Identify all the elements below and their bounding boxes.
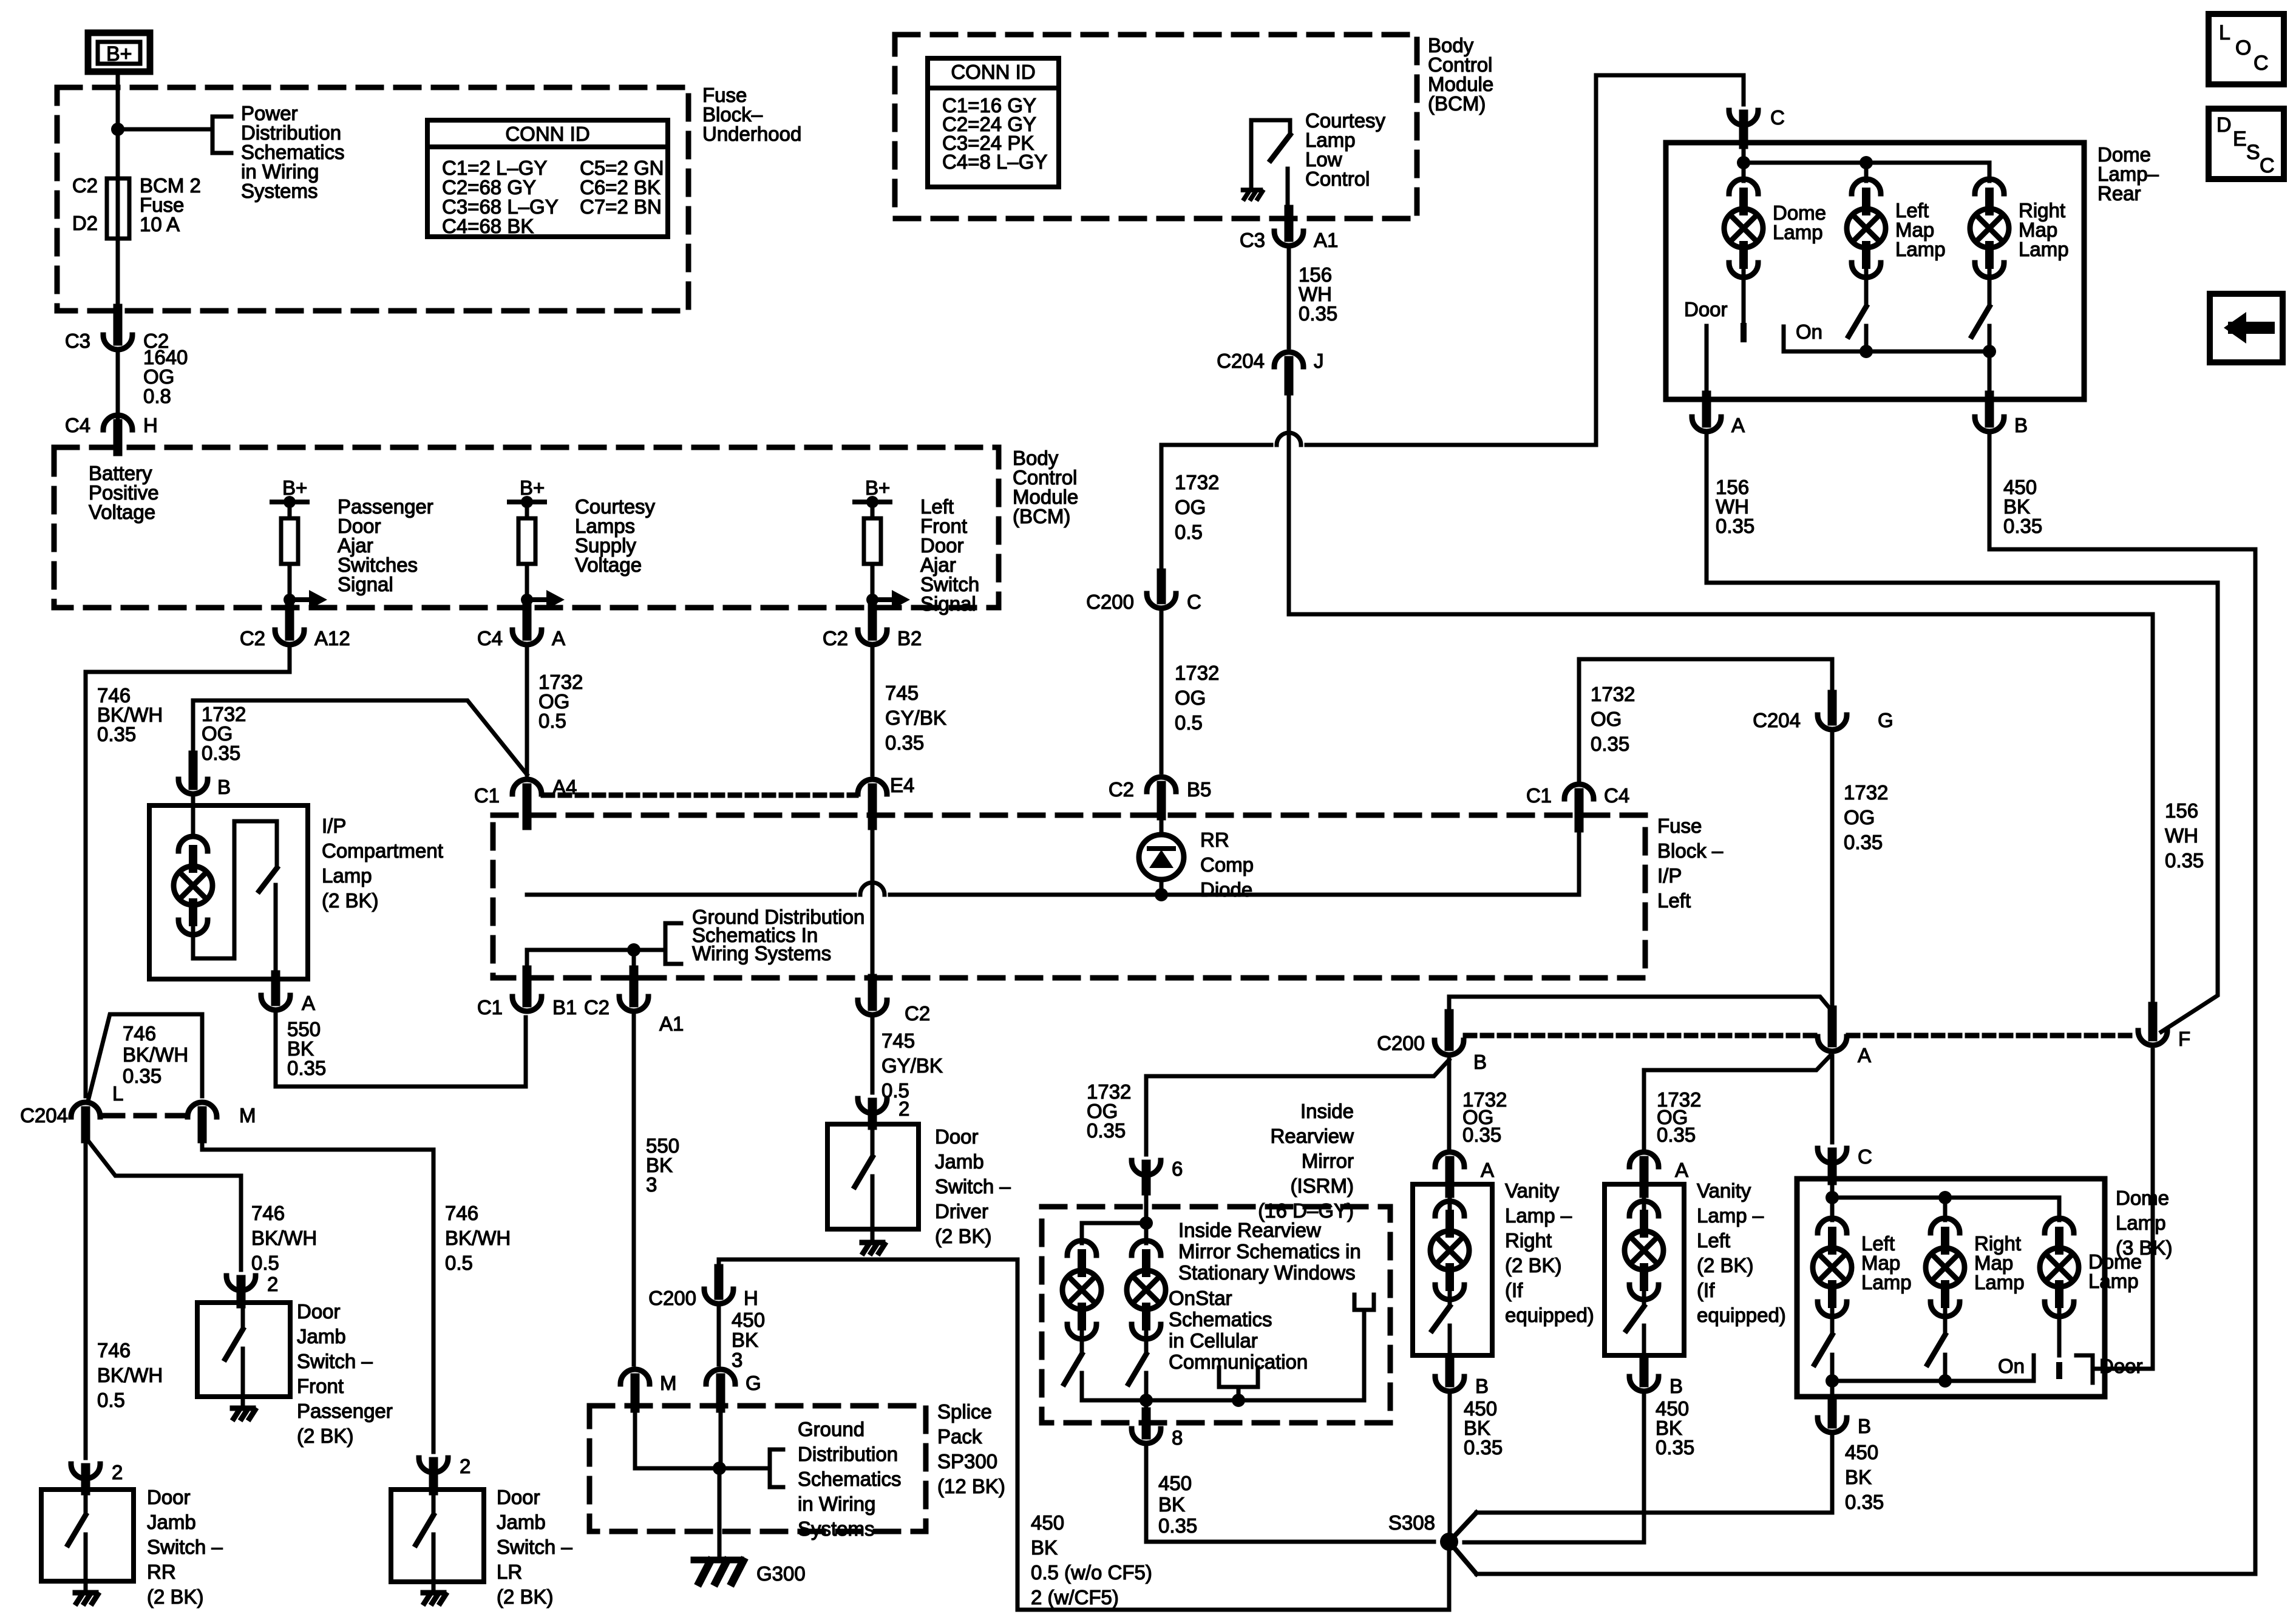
- svg-text:M: M: [660, 1372, 677, 1394]
- svg-text:(2 BK): (2 BK): [297, 1425, 354, 1447]
- wire 6 into ISRM box: [1144, 1191, 1149, 1223]
- wire I/P bulb to switch: [193, 821, 277, 958]
- hop at J column: [1277, 442, 1301, 449]
- svg-text:A: A: [552, 627, 565, 649]
- svg-text:Schematics: Schematics: [798, 1468, 902, 1490]
- svg-text:BK/WH: BK/WH: [445, 1227, 511, 1249]
- wire L to front passenger jamb: [86, 1137, 241, 1270]
- wire on bus: [1866, 350, 1989, 354]
- wire 3bk to B: [1830, 1381, 1835, 1407]
- node fuse feed junction: [111, 123, 124, 136]
- svg-text:C204: C204: [20, 1104, 68, 1127]
- wire vanity right to S308: [1448, 1395, 1452, 1533]
- dotted connector line A4-E4: [543, 793, 856, 798]
- svg-text:Lamp: Lamp: [1861, 1271, 1912, 1293]
- wire splice to bracket: [719, 1466, 770, 1471]
- svg-text:0.35: 0.35: [202, 742, 240, 764]
- svg-text:Signal: Signal: [338, 573, 393, 595]
- connector C4/H (cap): [103, 415, 132, 430]
- svg-text:Left: Left: [1657, 889, 1691, 912]
- svg-text:Door: Door: [1684, 298, 1728, 320]
- wire bus drop right map 3bk: [1943, 1198, 1948, 1220]
- wire vanity left feed: [1644, 1056, 1830, 1148]
- connector G splice (cap): [706, 1369, 735, 1384]
- ground G300: [694, 1557, 741, 1564]
- svg-text:Jamb: Jamb: [297, 1325, 346, 1347]
- svg-text:B: B: [1473, 1051, 1487, 1073]
- svg-text:Lamp: Lamp: [1773, 221, 1823, 243]
- node dome rear bus 2: [1860, 156, 1873, 169]
- svg-text:0.35: 0.35: [2165, 849, 2204, 872]
- svg-text:C7=2 BN: C7=2 BN: [580, 195, 662, 218]
- svg-text:C4=68 BK: C4=68 BK: [442, 215, 534, 237]
- wire ground distribution link: [527, 950, 665, 974]
- svg-text:1732: 1732: [1844, 781, 1888, 804]
- diagonal S308 bottom: [1447, 1608, 1452, 1612]
- wire left map switch: [1864, 265, 1869, 307]
- node on bus 2: [1983, 345, 1996, 358]
- svg-text:C2: C2: [584, 996, 610, 1019]
- svg-text:745: 745: [885, 682, 919, 704]
- svg-text:B: B: [1858, 1415, 1871, 1437]
- svg-text:S: S: [2246, 141, 2260, 164]
- switch courtesy lamp low control: [1251, 120, 1290, 189]
- wire 1640 OG 0.8: [116, 353, 120, 420]
- connector C dome rear (cup): [1729, 110, 1758, 125]
- connector C1/C4 (cap): [1564, 784, 1594, 799]
- svg-text:OnStar: OnStar: [1169, 1287, 1232, 1309]
- svg-text:D2: D2: [72, 212, 98, 234]
- wire 156 bus to F: [1289, 614, 2153, 1011]
- connector C2/B5 (cap): [1147, 777, 1176, 792]
- svg-text:Right: Right: [1505, 1229, 1552, 1252]
- svg-text:BK: BK: [1158, 1493, 1185, 1516]
- svg-text:450: 450: [732, 1309, 765, 1331]
- svg-text:(2 BK): (2 BK): [935, 1225, 992, 1247]
- wire right map switch: [1988, 265, 1992, 307]
- switch front passenger jamb: [241, 1303, 245, 1329]
- connector B dome 3bk (cup): [1818, 1418, 1847, 1432]
- wire C into dome rear box: [1742, 144, 1746, 181]
- connector C204/J (cap): [1274, 352, 1303, 367]
- svg-text:Mirror: Mirror: [1302, 1150, 1354, 1172]
- bulb left map lamp (rear): [1852, 179, 1881, 194]
- svg-text:J: J: [1314, 350, 1324, 372]
- connector 2 driver jamb (cup): [858, 1099, 887, 1113]
- wire G into splice: [719, 1405, 723, 1468]
- wire 746 BK/WH 0.35: [86, 648, 290, 1096]
- svg-text:Lamp: Lamp: [2116, 1212, 2166, 1234]
- connector A (cup) I/P lamp out: [261, 995, 290, 1010]
- svg-text:2: 2: [267, 1273, 278, 1295]
- svg-text:Communication: Communication: [1169, 1351, 1308, 1373]
- node ISRM bus 8: [1140, 1394, 1153, 1407]
- svg-text:OG: OG: [1591, 708, 1622, 730]
- DESC box: [2209, 109, 2284, 179]
- svg-text:Passenger: Passenger: [297, 1400, 393, 1422]
- svg-text:(2 BK): (2 BK): [322, 889, 379, 912]
- svg-text:Fuse: Fuse: [1657, 815, 1702, 837]
- svg-text:156: 156: [2165, 799, 2198, 822]
- connector C200/A vanity (cup): [1818, 1037, 1847, 1051]
- switch ISRM left: [1080, 1327, 1084, 1354]
- bracket On (3bk): [2032, 1355, 2036, 1381]
- switch vanity left: [1642, 1287, 1646, 1306]
- bulb I/P compartment lamp: [178, 836, 208, 851]
- svg-text:2: 2: [460, 1455, 470, 1477]
- svg-text:in Wiring: in Wiring: [798, 1493, 875, 1515]
- wire ISRM branch left: [1082, 1223, 1146, 1243]
- svg-text:B+: B+: [282, 476, 307, 499]
- bulb dome 3bk: [2045, 1218, 2074, 1233]
- svg-text:0.35: 0.35: [1591, 733, 1629, 755]
- svg-text:B+: B+: [865, 476, 890, 499]
- dashed box Body Control Module: [54, 447, 999, 608]
- svg-text:0.35: 0.35: [1087, 1119, 1126, 1142]
- door jamb switch RR box: [41, 1490, 134, 1581]
- hop at E4 column: [860, 892, 885, 898]
- connector B dome rear (cup): [1975, 417, 2004, 432]
- svg-text:O: O: [2235, 36, 2251, 59]
- svg-text:C: C: [1858, 1145, 1872, 1168]
- svg-text:A: A: [1481, 1159, 1494, 1181]
- svg-text:OG: OG: [1175, 496, 1206, 518]
- svg-text:B: B: [1475, 1375, 1489, 1397]
- svg-text:Switch –: Switch –: [497, 1536, 572, 1558]
- svg-text:Vanity: Vanity: [1505, 1179, 1560, 1202]
- wire bus drop right map: [1988, 163, 1992, 181]
- wire C200 H feed from S308: [719, 1259, 1447, 1610]
- svg-text:0.35: 0.35: [2003, 515, 2042, 537]
- svg-text:Switch –: Switch –: [297, 1350, 373, 1372]
- svg-text:Jamb: Jamb: [935, 1150, 984, 1173]
- svg-text:0.5: 0.5: [1175, 521, 1203, 543]
- svg-text:746: 746: [97, 1339, 131, 1361]
- diode RR Comp: [1139, 835, 1184, 880]
- wire 550 BK 0.35: [276, 1014, 526, 1086]
- connector C200/C (cup): [1147, 594, 1176, 608]
- svg-text:8: 8: [1172, 1426, 1183, 1449]
- svg-text:Switch –: Switch –: [935, 1175, 1011, 1198]
- svg-text:equipped): equipped): [1505, 1304, 1594, 1326]
- connector A dome rear (cup): [1692, 417, 1721, 432]
- wire I/P switch lower: [274, 885, 278, 982]
- node 3bk bottom bus 2: [1938, 1374, 1952, 1388]
- svg-text:Rearview: Rearview: [1270, 1125, 1354, 1147]
- svg-text:A: A: [1675, 1159, 1688, 1181]
- svg-text:BK: BK: [732, 1329, 758, 1351]
- svg-text:450: 450: [1031, 1511, 1064, 1534]
- connector F (cup): [2138, 1031, 2167, 1045]
- svg-text:C1: C1: [1526, 784, 1552, 807]
- svg-text:0.35: 0.35: [1464, 1436, 1503, 1459]
- svg-text:Pack: Pack: [937, 1425, 982, 1448]
- switch blade I/P lamp: [259, 868, 277, 891]
- wire vanity right pin: [1448, 1187, 1452, 1216]
- svg-text:M: M: [239, 1104, 256, 1127]
- connector 2 RR (cup): [71, 1464, 100, 1479]
- wire E4 to C2: [871, 821, 875, 987]
- switch right map 3bk: [1943, 1304, 1948, 1335]
- svg-text:Splice: Splice: [937, 1400, 992, 1423]
- svg-text:0.35: 0.35: [1299, 302, 1337, 325]
- svg-text:0.5: 0.5: [251, 1252, 279, 1274]
- svg-text:0.35: 0.35: [97, 723, 136, 745]
- svg-text:0.35: 0.35: [885, 731, 924, 754]
- svg-text:A1: A1: [1314, 229, 1338, 251]
- svg-text:G: G: [746, 1372, 761, 1394]
- ground LR: [423, 1590, 444, 1596]
- wire C to B5: [1160, 612, 1164, 772]
- svg-text:OG: OG: [1844, 806, 1875, 829]
- svg-text:Lamp –: Lamp –: [1697, 1204, 1764, 1227]
- connector C4/A (cup): [512, 630, 542, 645]
- wire bus up to C1/C4: [1577, 821, 1581, 895]
- wire into I/P lamp box: [191, 798, 195, 833]
- svg-text:Control: Control: [1305, 168, 1370, 190]
- svg-text:L: L: [2219, 21, 2230, 44]
- connector C dome 3bk (cup): [1818, 1148, 1847, 1163]
- dashed box BCM top: [895, 35, 1417, 219]
- svg-text:A: A: [1731, 414, 1745, 436]
- svg-text:2: 2: [898, 1097, 909, 1120]
- wire 156 WH 0.35 to C204 J: [1287, 249, 1291, 347]
- svg-text:10 A: 10 A: [140, 213, 180, 236]
- bulb vanity left: [1629, 1201, 1659, 1216]
- wire BCM to dome rear C: [1596, 75, 1744, 445]
- svg-text:0.35: 0.35: [1657, 1124, 1696, 1146]
- svg-text:0.35: 0.35: [1844, 831, 1883, 853]
- wire 1732 OG bus: [527, 893, 1579, 897]
- door jamb switch LR box: [391, 1490, 484, 1582]
- wire 450 BK 3: [717, 1307, 721, 1364]
- svg-text:(BCM): (BCM): [1428, 92, 1486, 115]
- connector C3/A1 (cup): [1274, 231, 1303, 246]
- connector M splice (cap): [620, 1369, 650, 1384]
- dashed line between L and M: [104, 1113, 183, 1119]
- bridge wire L to M: [89, 1014, 202, 1099]
- switch ISRM right: [1144, 1327, 1149, 1354]
- svg-text:Systems: Systems: [798, 1517, 875, 1540]
- svg-text:C2: C2: [905, 1002, 930, 1025]
- svg-text:Door: Door: [297, 1300, 341, 1323]
- connector C1/B1 (cup): [512, 997, 542, 1011]
- ground RR stem: [84, 1581, 88, 1593]
- svg-text:WH: WH: [2165, 824, 2198, 847]
- node splice junction: [713, 1462, 726, 1475]
- svg-text:Ground: Ground: [798, 1418, 864, 1440]
- svg-text:746: 746: [123, 1022, 156, 1045]
- node diode to 1474 line: [1155, 888, 1168, 901]
- connector C204/L (cap): [71, 1102, 100, 1117]
- node 3bk bottom bus 1: [1826, 1374, 1839, 1388]
- svg-text:equipped): equipped): [1697, 1304, 1786, 1326]
- svg-text:Door: Door: [935, 1125, 979, 1148]
- svg-text:C200: C200: [648, 1287, 696, 1309]
- bracket Door (3bk): [2076, 1355, 2093, 1383]
- svg-text:Jamb: Jamb: [147, 1511, 196, 1533]
- svg-text:C200: C200: [1377, 1032, 1425, 1054]
- svg-text:Rear: Rear: [2097, 182, 2141, 205]
- wire S308 bottom drop: [1447, 1542, 1452, 1610]
- wire M to LR jamb: [202, 1137, 433, 1452]
- svg-text:BK/WH: BK/WH: [97, 1364, 163, 1386]
- wire L to RR jamb: [84, 1137, 88, 1458]
- svg-text:0.35: 0.35: [123, 1065, 161, 1087]
- wire vanity left to S308: [1464, 1395, 1644, 1542]
- bracket ground dist (splice): [770, 1449, 783, 1487]
- svg-text:Diode: Diode: [1200, 878, 1252, 901]
- svg-text:2 (w/CF5): 2 (w/CF5): [1031, 1586, 1119, 1609]
- svg-text:OG: OG: [1175, 686, 1206, 709]
- svg-text:B+: B+: [520, 476, 545, 499]
- svg-text:Left: Left: [1697, 1229, 1730, 1252]
- svg-text:0.5: 0.5: [97, 1389, 125, 1411]
- door jamb switch driver box: [827, 1124, 919, 1229]
- switch vanity right: [1448, 1287, 1452, 1306]
- bracket On (dome rear): [1784, 327, 1866, 351]
- svg-text:0.35: 0.35: [1845, 1491, 1884, 1513]
- LOC box: [2209, 14, 2284, 84]
- svg-text:C4: C4: [65, 414, 90, 436]
- svg-text:450: 450: [1845, 1441, 1878, 1463]
- svg-text:C4: C4: [1604, 784, 1629, 807]
- svg-text:Stationary Windows: Stationary Windows: [1178, 1261, 1356, 1284]
- connector 8 ISRM (cup): [1132, 1429, 1161, 1443]
- wire F to door contact: [2093, 1050, 2153, 1369]
- svg-text:D: D: [2216, 114, 2232, 137]
- node ground dist junction: [627, 943, 640, 957]
- svg-text:745: 745: [881, 1029, 915, 1052]
- svg-text:H: H: [143, 414, 158, 436]
- svg-text:L: L: [112, 1082, 123, 1105]
- svg-text:C: C: [2254, 52, 2269, 75]
- svg-text:C1: C1: [474, 784, 500, 807]
- wire to power distribution ref: [118, 127, 212, 132]
- svg-text:2: 2: [112, 1461, 123, 1483]
- bulb ISRM left: [1067, 1241, 1096, 1255]
- connector B (cup) I/P lamp: [178, 779, 208, 794]
- ground LR stem: [432, 1582, 436, 1593]
- dome lamp 3BK box: [1797, 1179, 2105, 1397]
- svg-text:746: 746: [445, 1202, 478, 1224]
- switch LR jamb: [432, 1490, 436, 1515]
- dashed box fuse block IP left / BCM lower: [493, 815, 1645, 978]
- svg-text:Driver: Driver: [935, 1200, 988, 1222]
- ground driver jamb: [862, 1240, 883, 1246]
- wire J down to 156 bus: [1287, 391, 1291, 614]
- svg-text:A: A: [302, 992, 315, 1014]
- svg-text:(2 BK): (2 BK): [1697, 1254, 1754, 1276]
- svg-text:Lamp: Lamp: [1895, 238, 1946, 260]
- svg-text:RR: RR: [147, 1561, 176, 1583]
- wire A1 drop from junction: [632, 950, 636, 974]
- dotted line B to A: [1466, 1033, 1816, 1039]
- svg-text:C4=8 L–GY: C4=8 L–GY: [942, 151, 1047, 173]
- connector C200/H (cup): [704, 1289, 733, 1304]
- svg-text:3: 3: [646, 1173, 657, 1196]
- connector C3/C2 (cup): [103, 335, 132, 350]
- svg-text:C3: C3: [1240, 229, 1265, 251]
- arrow box: [2210, 294, 2283, 362]
- diagonal S308 SE: [1449, 1542, 1476, 1574]
- svg-text:BK: BK: [1031, 1536, 1058, 1559]
- dotted line A to F: [1849, 1033, 2136, 1039]
- svg-text:Underhood: Underhood: [702, 123, 801, 145]
- svg-text:Lamp: Lamp: [2088, 1270, 2139, 1292]
- bracket ground distribution: [665, 923, 681, 964]
- wire 733 horizontal: [1161, 443, 1596, 447]
- connector B vanity left (cup): [1629, 1377, 1659, 1391]
- svg-text:Dome: Dome: [2116, 1187, 2169, 1209]
- svg-text:RR: RR: [1200, 829, 1229, 851]
- svg-text:B: B: [217, 776, 231, 798]
- wire C4 to C204 G: [1579, 659, 1832, 781]
- vanity lamp right box: [1413, 1184, 1492, 1355]
- wire dome 3bk bus: [1832, 1198, 2059, 1220]
- svg-text:in Cellular: in Cellular: [1169, 1329, 1258, 1352]
- switch contact dome rear: [1741, 326, 1747, 339]
- svg-text:Lamp: Lamp: [2019, 238, 2069, 260]
- svg-text:(If: (If: [1697, 1279, 1715, 1301]
- connector C2/A1 (cup): [619, 997, 648, 1011]
- bulb ISRM right: [1132, 1241, 1161, 1255]
- svg-text:(If: (If: [1505, 1279, 1523, 1301]
- wire C into dome 3bk box: [1830, 1181, 1835, 1198]
- wire 745 GY/BK 0.35: [871, 648, 875, 775]
- svg-text:A1: A1: [659, 1012, 684, 1035]
- connector 2 LR (cup): [419, 1458, 448, 1473]
- ground courtesy low control: [1243, 188, 1261, 192]
- connector A vanity left (cap): [1629, 1152, 1659, 1167]
- svg-text:(2 BK): (2 BK): [497, 1585, 554, 1608]
- wire right map to B: [1988, 351, 1992, 399]
- svg-text:H: H: [744, 1287, 758, 1309]
- connector C2/A12 (cup): [275, 630, 304, 645]
- svg-text:C1: C1: [477, 996, 503, 1019]
- svg-text:CONN ID: CONN ID: [505, 123, 589, 145]
- svg-text:Comp: Comp: [1200, 853, 1254, 876]
- wire B+ to fuse: [116, 72, 120, 311]
- B+ battery terminal box: [88, 33, 150, 72]
- svg-text:G300: G300: [756, 1562, 806, 1585]
- svg-text:B+: B+: [106, 42, 132, 66]
- svg-text:0.5: 0.5: [1175, 711, 1203, 734]
- svg-text:CONN ID: CONN ID: [951, 61, 1035, 83]
- svg-text:C200: C200: [1086, 591, 1134, 613]
- svg-text:(12 BK): (12 BK): [937, 1475, 1005, 1497]
- node dome 3bk bus 1: [1826, 1191, 1839, 1204]
- node dome 3bk bus 2: [1938, 1191, 1952, 1204]
- svg-text:C2: C2: [823, 627, 848, 649]
- svg-text:0.5: 0.5: [538, 710, 566, 732]
- svg-text:On: On: [1796, 320, 1822, 343]
- svg-text:C204: C204: [1753, 709, 1801, 731]
- svg-text:On: On: [1998, 1355, 2025, 1377]
- svg-text:E4: E4: [890, 774, 914, 796]
- svg-text:Signal: Signal: [920, 592, 976, 615]
- svg-text:(BCM): (BCM): [1013, 505, 1070, 527]
- svg-text:BK/WH: BK/WH: [123, 1043, 188, 1066]
- svg-text:B: B: [2014, 414, 2028, 436]
- node ISRM bus onstar: [1232, 1394, 1245, 1407]
- wire G to A: [1830, 733, 1835, 1014]
- wire 8 to S308: [1146, 1447, 1434, 1542]
- ground front passenger stem: [241, 1397, 245, 1408]
- svg-text:C: C: [2260, 154, 2275, 177]
- svg-text:3: 3: [732, 1349, 742, 1371]
- bulb vanity right: [1435, 1201, 1464, 1216]
